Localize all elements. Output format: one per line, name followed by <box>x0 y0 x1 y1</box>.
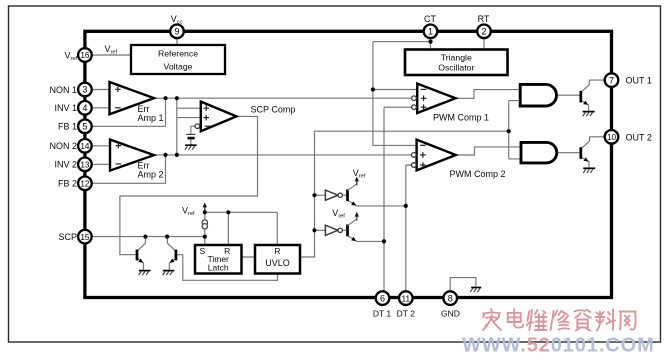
svg-text:Latch: Latch <box>208 262 229 272</box>
svg-text:15: 15 <box>80 233 90 242</box>
svg-text:CT: CT <box>424 14 436 24</box>
svg-text:12: 12 <box>80 180 90 189</box>
svg-text:Reference: Reference <box>158 48 198 58</box>
svg-text:10: 10 <box>607 133 617 142</box>
svg-text:13: 13 <box>80 161 90 170</box>
svg-text:6: 6 <box>380 293 385 303</box>
svg-text:Amp 2: Amp 2 <box>138 170 164 180</box>
svg-text:RT: RT <box>478 14 490 24</box>
svg-text:3: 3 <box>82 85 87 95</box>
svg-text:2: 2 <box>481 27 486 37</box>
svg-text:SCP: SCP <box>58 232 77 242</box>
svg-text:1: 1 <box>428 27 433 37</box>
svg-text:Oscillator: Oscillator <box>438 63 474 73</box>
svg-text:4: 4 <box>82 103 87 113</box>
svg-text:INV 1: INV 1 <box>54 103 77 113</box>
svg-text:7: 7 <box>609 75 614 85</box>
svg-text:WWW.520101.COM: WWW.520101.COM <box>462 335 655 357</box>
svg-text:14: 14 <box>80 142 90 151</box>
svg-text:5: 5 <box>82 122 87 132</box>
svg-text:PWM Comp 1: PWM Comp 1 <box>433 113 489 123</box>
svg-text:UVLO: UVLO <box>265 258 290 268</box>
svg-text:16: 16 <box>80 51 90 60</box>
svg-text:8: 8 <box>448 293 453 303</box>
svg-text:INV 2: INV 2 <box>54 160 77 170</box>
svg-text:Triangle: Triangle <box>441 52 472 62</box>
svg-text:11: 11 <box>402 294 411 303</box>
svg-text:9: 9 <box>174 27 179 37</box>
svg-text:SCP Comp: SCP Comp <box>251 104 296 114</box>
svg-text:OUT 2: OUT 2 <box>626 132 652 142</box>
svg-text:FB 2: FB 2 <box>58 179 77 189</box>
svg-text:S: S <box>199 246 205 256</box>
svg-text:NON 1: NON 1 <box>49 85 77 95</box>
svg-text:Voltage: Voltage <box>164 61 193 71</box>
svg-text:Amp 1: Amp 1 <box>138 113 164 123</box>
svg-text:OUT 1: OUT 1 <box>626 76 652 86</box>
svg-text:GND: GND <box>441 309 460 319</box>
svg-text:R: R <box>274 246 280 256</box>
svg-text:NON 2: NON 2 <box>49 141 77 151</box>
svg-text:DT 1: DT 1 <box>373 309 392 319</box>
svg-text:DT 2: DT 2 <box>397 309 416 319</box>
svg-text:FB 1: FB 1 <box>58 122 77 132</box>
svg-text:PWM Comp 2: PWM Comp 2 <box>450 169 506 179</box>
